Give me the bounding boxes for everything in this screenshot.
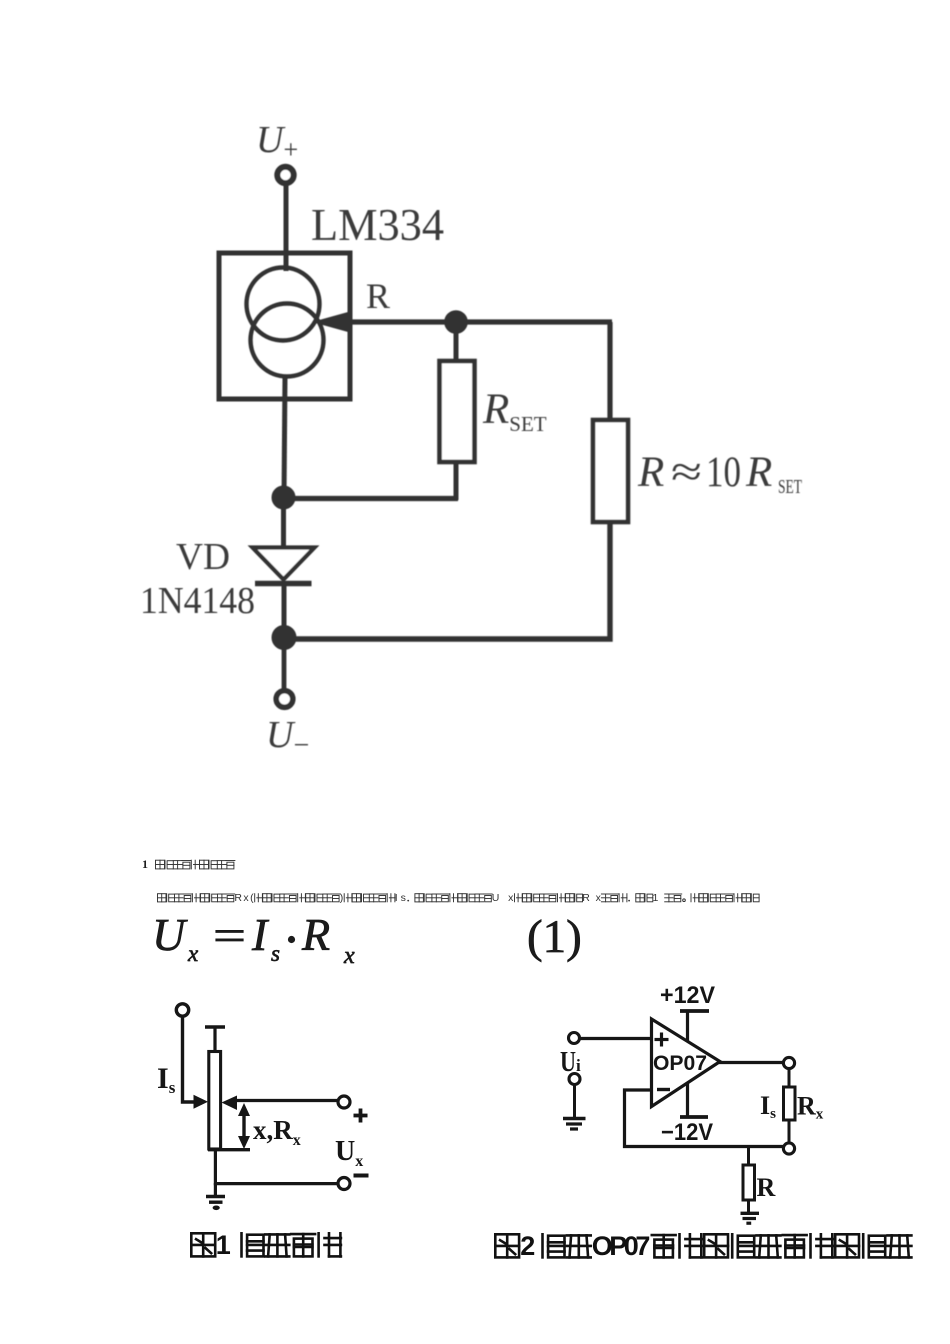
wire RSET to node B wire	[454, 462, 459, 500]
caption 图1 恒流源法	[191, 1233, 215, 1256]
node U- terminal	[276, 691, 293, 708]
svg-text:1: 1	[142, 857, 148, 871]
junction node A	[445, 311, 467, 333]
svg-text:VD: VD	[176, 536, 230, 578]
fig2 +12V T terminal	[680, 1009, 709, 1013]
svg-text:Rx: Rx	[582, 892, 601, 904]
fig1 x,Rx measurement double arrow	[242, 1109, 245, 1143]
svg-text:Is: Is	[157, 1062, 176, 1097]
wire current source to node B	[284, 376, 285, 497]
fig2 output wire	[719, 1061, 789, 1064]
fig1 pot bottom tick	[208, 1148, 250, 1151]
fig1 arrowhead Is into pot	[194, 1095, 209, 1109]
svg-text:1: 1	[216, 1230, 231, 1260]
op-amp OP07 triangle	[652, 1019, 721, 1107]
junction node B	[273, 487, 295, 509]
svg-text:Rx: Rx	[797, 1092, 824, 1123]
svg-text:x,Rx: x,Rx	[253, 1115, 301, 1149]
current source circle 1	[247, 268, 320, 341]
fig1 + terminal	[338, 1096, 350, 1108]
fig1 input terminal	[176, 1004, 188, 1016]
svg-text:R: R	[366, 276, 390, 316]
fig2 wire input to +	[580, 1037, 652, 1040]
svg-text:−12V: −12V	[661, 1119, 713, 1146]
node U+ terminal	[277, 167, 293, 183]
fig1 potentiometer Rx body	[209, 1052, 221, 1150]
svg-text:1N4148: 1N4148	[140, 580, 255, 622]
LM334 package box U1	[219, 253, 350, 399]
fig1 plus sign	[354, 1114, 368, 1118]
svg-text:Is: Is	[395, 892, 406, 904]
wire resistor R to node C	[283, 522, 610, 639]
fig1 ground	[206, 1195, 225, 1199]
wire diode VD to node C	[282, 584, 287, 640]
fig2 wire output to Rx	[788, 1068, 791, 1088]
fig2 output terminal	[783, 1057, 794, 1068]
fig2 R to ground	[747, 1200, 750, 1214]
svg-text:Ux: Ux	[335, 1136, 363, 1170]
wire U+ to LM334 box	[284, 184, 289, 271]
junction node C	[273, 626, 296, 649]
svg-text:x: x	[187, 941, 199, 966]
svg-text:LM334: LM334	[311, 199, 444, 250]
resistor RSET	[440, 361, 475, 462]
diode VD cathode bar	[255, 581, 312, 587]
svg-text:Ux: Ux	[492, 892, 514, 904]
fig2 Ui lower terminal	[569, 1074, 580, 1085]
fig1 wire pot bottom to ground and - terminal	[215, 1150, 344, 1184]
fig2 resistor R stem	[747, 1147, 750, 1167]
svg-text:1: 1	[653, 892, 659, 904]
svg-text:U: U	[560, 1047, 576, 1078]
fig2 bottom terminal	[783, 1143, 794, 1154]
svg-text:Rx(: Rx(	[234, 892, 254, 904]
paragraph text	[158, 894, 167, 902]
svg-text:R: R	[757, 1173, 776, 1202]
arrowhead into R pin	[312, 312, 348, 332]
current source circle 2	[251, 304, 324, 377]
caption 图2 基于OP07运算放大器的恒流源法	[495, 1234, 519, 1257]
op-amp + input mark	[655, 1038, 669, 1041]
wire node B horizontal	[283, 496, 458, 501]
svg-text:OP07: OP07	[592, 1231, 651, 1261]
fig1 - terminal	[338, 1178, 350, 1190]
resistor R	[593, 420, 628, 522]
fig1 pot top T terminal	[205, 1025, 225, 1029]
svg-text:): )	[340, 892, 344, 904]
heading 恒流源阻值检测电路	[156, 860, 165, 869]
fig2 -12V stem and T	[686, 1083, 689, 1117]
fig2 resistor Rx	[784, 1087, 796, 1120]
op-amp - input mark	[657, 1088, 670, 1091]
svg-text:OP07: OP07	[653, 1052, 707, 1075]
svg-text:U: U	[152, 909, 188, 960]
fig2 resistor R	[743, 1165, 755, 1200]
fig2 ground under R	[741, 1212, 760, 1215]
svg-text:RSET: RSET	[482, 386, 547, 436]
svg-text:(1): (1)	[527, 911, 582, 963]
fig2 input terminal	[569, 1033, 580, 1044]
fig1 minus sign	[354, 1174, 369, 1178]
wire node A to resistor R	[607, 322, 612, 421]
fig2 wire to ground	[573, 1084, 576, 1117]
diode VD anode triangle	[253, 548, 315, 580]
svg-text:i: i	[576, 1056, 581, 1075]
fig1 wire terminal down	[183, 1016, 200, 1102]
fig2 feedback wire	[625, 1090, 790, 1147]
fig1 wiper arrowhead from right	[222, 1096, 238, 1111]
fig2 wire Rx to bottom node	[788, 1120, 791, 1143]
svg-text:x: x	[343, 943, 355, 969]
wire R pin to node A	[345, 319, 612, 324]
wire node B to diode VD	[281, 498, 286, 549]
svg-text:+12V: +12V	[660, 982, 715, 1009]
svg-text:R≈10RSET: R≈10RSET	[637, 449, 802, 498]
svg-text:s: s	[271, 941, 280, 966]
wire node C to U- terminal	[282, 640, 287, 691]
wire node A to RSET	[454, 322, 459, 363]
svg-text:R: R	[301, 909, 330, 960]
svg-text:I: I	[251, 909, 270, 960]
svg-text:2: 2	[520, 1231, 535, 1261]
svg-text:U−: U−	[266, 714, 309, 761]
fig2 input ground	[563, 1117, 586, 1120]
svg-text:U+: U+	[256, 119, 298, 164]
fig1 wire wiper to + terminal	[236, 1099, 338, 1102]
formula Ux = Is · Rx	[152, 909, 355, 969]
svg-text:=: =	[213, 914, 246, 960]
svg-text:Is: Is	[760, 1091, 776, 1122]
